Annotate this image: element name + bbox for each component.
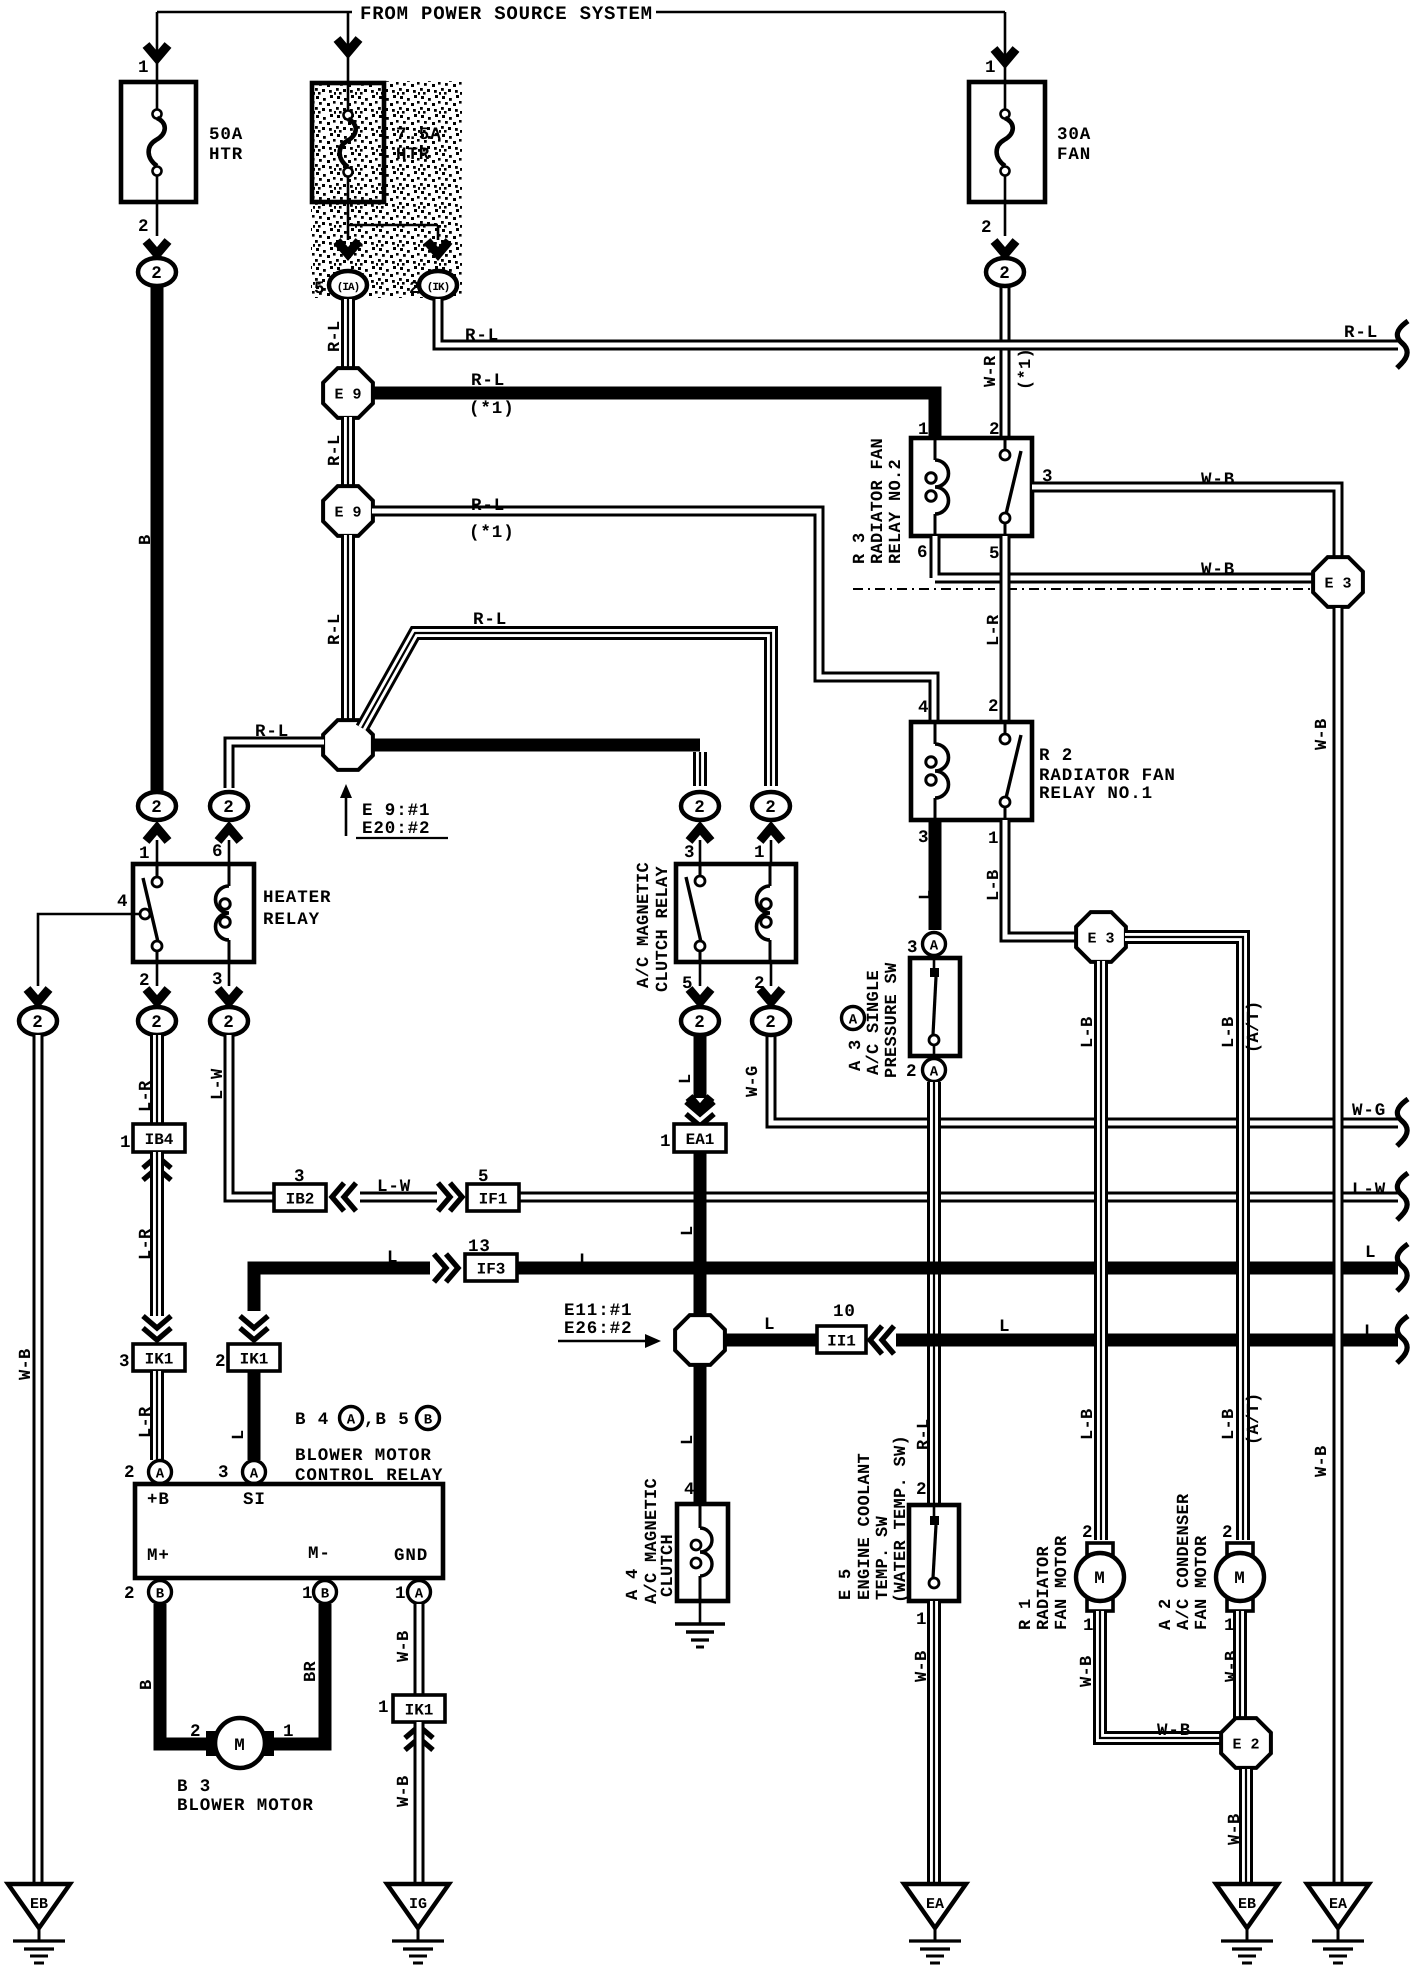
wire R-L from IK to right edge [438, 299, 1398, 345]
wire R-L junction diagonal to A/C clutch relay pin 1 [362, 633, 771, 786]
A/C clutch relay pin 5 to connector [699, 962, 702, 986]
svg-text:L-B: L-B [1220, 1016, 1239, 1048]
wire BR from M- to blower motor [270, 1604, 325, 1744]
svg-text:1: 1 [120, 1133, 131, 1153]
svg-text:R-L: R-L [255, 722, 289, 742]
svg-text:W-B: W-B [1313, 1445, 1332, 1477]
ground IG [387, 1884, 449, 1928]
svg-text:FAN MOTOR: FAN MOTOR [1193, 1535, 1212, 1630]
svg-text:W-B: W-B [395, 1775, 414, 1807]
svg-text:2: 2 [694, 798, 705, 818]
svg-text:L: L [1365, 1243, 1376, 1263]
wire L from A/C clutch relay pin 5 down to EA1 [694, 1035, 707, 1098]
svg-text:W-B: W-B [913, 1650, 932, 1682]
svg-text:E 3: E 3 [1087, 931, 1114, 948]
wire W-B radiator fan motor to E2 [1100, 1611, 1222, 1738]
svg-text:R-L: R-L [915, 1418, 934, 1450]
pin 2 of 50A fuse [156, 202, 159, 236]
wire: 7.5A fuse output branch [347, 202, 350, 225]
svg-text:L: L [917, 889, 936, 900]
svg-text:A: A [930, 939, 939, 955]
ground below A/C magnetic clutch [699, 1601, 702, 1624]
relay: A/C MAGNETIC CLUTCH RELAY [676, 864, 796, 962]
svg-text:B: B [321, 1587, 330, 1603]
fuse 7.5A HTR [312, 83, 384, 202]
svg-text:GND: GND [394, 1546, 428, 1566]
wire: feed to 7.5A HTR fuse [347, 12, 350, 83]
svg-text:W-B: W-B [1201, 560, 1235, 580]
wire L down to IK1 pin 2 [240, 1316, 268, 1328]
svg-text:IF3: IF3 [477, 1261, 506, 1279]
wire W-G horizontal run to right edge [771, 1035, 1398, 1123]
svg-text:A: A [156, 1467, 165, 1483]
svg-text:R-L: R-L [473, 610, 507, 630]
svg-text:W-B: W-B [1226, 1813, 1245, 1845]
connector E 3 upper [1313, 557, 1363, 607]
svg-text:4: 4 [918, 698, 929, 718]
svg-text:M: M [1234, 1569, 1245, 1589]
svg-text:(WATER TEMP. SW): (WATER TEMP. SW) [892, 1435, 911, 1603]
svg-text:W-G: W-G [744, 1065, 763, 1097]
svg-text:(IA): (IA) [337, 282, 359, 294]
svg-text:RELAY: RELAY [263, 910, 320, 930]
svg-text:2: 2 [765, 798, 776, 818]
svg-text:A 3: A 3 [847, 1039, 866, 1071]
wire L to IF3 [254, 1268, 430, 1311]
svg-text:2: 2 [916, 1480, 927, 1500]
connector 2 on heater relay pin 4 wire [19, 1007, 57, 1035]
net: FROM POWER SOURCE SYSTEM feed line [157, 11, 352, 14]
connector 2 below 30A fuse [986, 258, 1024, 286]
wire R-L junction to heater relay pin 6 [229, 742, 324, 788]
connector 2 above heater relay pin 6 [218, 828, 240, 841]
svg-text:1: 1 [283, 1722, 294, 1742]
svg-text:B 4: B 4 [295, 1410, 329, 1430]
relay: HEATER RELAY [133, 864, 254, 962]
wire W-B from IK1 to IG ground [414, 1722, 425, 1884]
svg-text:R-L: R-L [471, 496, 505, 516]
svg-text:2: 2 [999, 264, 1010, 284]
svg-text:R-L: R-L [326, 613, 345, 645]
svg-text:(A/T): (A/T) [1245, 1000, 1264, 1053]
svg-text:RADIATOR FAN: RADIATOR FAN [1039, 766, 1176, 786]
svg-text:IB2: IB2 [286, 1191, 315, 1209]
wire R-L (*1) bus from E9 to radiator fan relay no.2 [372, 393, 935, 440]
connector E 2 [1221, 1718, 1271, 1768]
svg-text:2: 2 [981, 218, 992, 238]
svg-text:R 1: R 1 [1017, 1598, 1036, 1630]
connector E 9 lower [323, 486, 373, 536]
svg-text:R 2: R 2 [1039, 746, 1073, 766]
svg-text:R-L: R-L [326, 434, 345, 466]
connector A of pressure switch pin 2 [923, 1059, 946, 1082]
svg-text:3: 3 [218, 1463, 229, 1483]
svg-text:3: 3 [684, 843, 695, 863]
connector E 9 upper [323, 368, 373, 418]
svg-text:5: 5 [314, 279, 325, 299]
wire R-L between E9 connectors [341, 417, 355, 487]
connector A of pressure switch pin 3 [923, 933, 946, 956]
svg-text:L: L [679, 1225, 698, 1236]
connector 2 above heater relay pin 1 [146, 828, 168, 841]
svg-text:RELAY NO.2: RELAY NO.2 [887, 459, 906, 564]
wire W-B from GND pin to IK1 [414, 1604, 425, 1695]
svg-text:1: 1 [988, 829, 999, 849]
wire L-R heater relay pin 2 to IB4 [150, 1035, 164, 1124]
wire L junction to II1 [724, 1334, 817, 1347]
svg-text:2: 2 [138, 217, 149, 237]
svg-text:1: 1 [754, 843, 765, 863]
connector 2 above A/C clutch relay pin 3 [689, 828, 711, 841]
svg-text:L: L [999, 1317, 1010, 1337]
svg-text:+B: +B [147, 1490, 170, 1510]
junction octagon E11/E26 [675, 1315, 725, 1365]
svg-text:2: 2 [124, 1463, 135, 1483]
connector 2 below 50A fuse [138, 258, 176, 286]
svg-text:A: A [250, 1467, 259, 1483]
heater relay pin 2 to connector [156, 962, 159, 986]
svg-text:5: 5 [989, 544, 1000, 564]
wire L IK1 to blower motor control relay [248, 1371, 261, 1460]
svg-text:W-B: W-B [395, 1630, 414, 1662]
svg-text:BLOWER MOTOR: BLOWER MOTOR [295, 1446, 432, 1466]
note arrow E 9:#1 E20:#2 [345, 792, 348, 836]
svg-text:A/C MAGNETIC: A/C MAGNETIC [635, 862, 654, 988]
wire: feed to 50A HTR fuse [156, 12, 159, 82]
svg-text:E 9: E 9 [334, 387, 361, 404]
svg-text:CLUTCH RELAY: CLUTCH RELAY [654, 865, 673, 992]
svg-text:(IK): (IK) [427, 282, 449, 294]
wire W-B condenser fan motor to E2 [1233, 1611, 1247, 1718]
svg-text:M+: M+ [147, 1546, 170, 1566]
svg-text:IG: IG [409, 1896, 427, 1913]
wire R-L from IA to E9 [341, 299, 355, 369]
svg-text:2: 2 [223, 1013, 234, 1033]
svg-text:W-B: W-B [1078, 1655, 1097, 1687]
svg-text:BLOWER MOTOR: BLOWER MOTOR [177, 1796, 314, 1816]
svg-text:2: 2 [151, 264, 162, 284]
svg-text:ENGINE COOLANT: ENGINE COOLANT [856, 1453, 875, 1600]
svg-text:FROM POWER SOURCE SYSTEM: FROM POWER SOURCE SYSTEM [360, 3, 653, 25]
svg-text:W-B: W-B [1201, 470, 1235, 490]
ground EB right [1216, 1884, 1278, 1928]
svg-text:4: 4 [117, 892, 128, 912]
svg-text:W-B: W-B [1157, 1721, 1191, 1741]
wire L-B (A/T) from E3 to condenser fan motor [1125, 937, 1243, 1540]
svg-text:2: 2 [151, 798, 162, 818]
svg-text:B 3: B 3 [177, 1777, 211, 1797]
svg-text:E 9:#1: E 9:#1 [362, 801, 430, 821]
svg-text:1: 1 [139, 844, 150, 864]
svg-text:M-: M- [308, 1544, 331, 1564]
svg-text:L-B: L-B [1079, 1408, 1098, 1440]
wire L-R IB4 to IK1 [150, 1152, 164, 1316]
svg-text:50A: 50A [209, 125, 243, 145]
svg-text:RELAY NO.1: RELAY NO.1 [1039, 784, 1153, 804]
svg-text:L: L [1364, 1322, 1375, 1342]
svg-text:1: 1 [660, 1132, 671, 1152]
wire L-R IK1 to blower motor control relay [150, 1371, 164, 1460]
svg-text:1: 1 [1083, 1616, 1094, 1636]
svg-text:L: L [230, 1429, 249, 1440]
svg-text:B: B [424, 1413, 433, 1429]
heater relay pin 3 to connector [228, 962, 231, 986]
svg-text:EB: EB [30, 1896, 48, 1913]
svg-text:3: 3 [119, 1352, 130, 1372]
svg-text:R-L: R-L [465, 326, 499, 346]
ground EA right [1307, 1884, 1369, 1928]
svg-text:R 3: R 3 [851, 532, 870, 564]
svg-text:(A/T): (A/T) [1245, 1392, 1264, 1445]
svg-text:L-B: L-B [1079, 1016, 1098, 1048]
svg-text:M: M [1094, 1569, 1105, 1589]
fuse 50A HTR [121, 82, 196, 202]
svg-text:R-L: R-L [326, 320, 345, 352]
svg-text:HEATER: HEATER [263, 888, 331, 908]
fuse 30A FAN [969, 82, 1045, 202]
connector E 3 lower [1076, 912, 1126, 962]
svg-text:2: 2 [1082, 1523, 1093, 1543]
svg-text:A: A [415, 1587, 424, 1603]
svg-text:L-W: L-W [1352, 1180, 1386, 1200]
svg-text:R-L: R-L [471, 371, 505, 391]
svg-text:L-R: L-R [137, 1406, 156, 1438]
svg-text:L-R: L-R [137, 1228, 156, 1260]
svg-text:1: 1 [302, 1584, 313, 1604]
svg-text:HTR: HTR [396, 145, 430, 165]
wire W-B heater relay pin 4 to EB ground [33, 1035, 44, 1884]
svg-text:A/C SINGLE: A/C SINGLE [865, 970, 884, 1075]
A/C clutch relay pin 2 to connector [770, 962, 773, 986]
svg-text:SI: SI [243, 1490, 266, 1510]
svg-text:TEMP. SW: TEMP. SW [874, 1515, 893, 1600]
svg-text:1: 1 [985, 58, 996, 78]
svg-text:RADIATOR: RADIATOR [1035, 1545, 1054, 1630]
wire R-L (*1) from E9 to radiator fan relay no.1 pin 4 [372, 511, 934, 724]
svg-text:L-R: L-R [985, 614, 1004, 646]
wire R-L thick junction to A/C clutch relay pin 3 [372, 739, 700, 752]
svg-text:L: L [579, 1251, 590, 1271]
pin 2 of 30A fuse [1004, 202, 1007, 236]
svg-text:2: 2 [1222, 1523, 1233, 1543]
svg-text:CLUTCH: CLUTCH [659, 1534, 678, 1597]
svg-text:2: 2 [906, 1062, 917, 1082]
svg-text:L-B: L-B [985, 869, 1004, 901]
wire L from II1 to right edge [896, 1334, 1398, 1347]
svg-text:HTR: HTR [209, 145, 243, 165]
svg-text:(*1): (*1) [469, 399, 515, 419]
svg-text:FAN: FAN [1057, 145, 1091, 165]
wire L-B from E3 to radiator fan motor [1094, 961, 1108, 1540]
svg-text:3: 3 [918, 828, 929, 848]
svg-text:EB: EB [1238, 1896, 1256, 1913]
svg-text:4: 4 [684, 1480, 695, 1500]
svg-text:IK1: IK1 [405, 1702, 434, 1720]
svg-text:A 2: A 2 [1157, 1598, 1176, 1630]
svg-text:3: 3 [907, 938, 918, 958]
switch A 3 A/C SINGLE PRESSURE SW [933, 956, 936, 968]
svg-text:B: B [156, 1587, 165, 1603]
svg-text:6: 6 [917, 543, 928, 563]
svg-text:IK1: IK1 [240, 1351, 269, 1369]
svg-text:E 9: E 9 [334, 505, 361, 522]
svg-text:7.5A: 7.5A [396, 125, 442, 145]
wire R-L from E9 to junction [341, 535, 355, 721]
svg-text:L-B: L-B [1220, 1408, 1239, 1440]
wire R-L from pressure switch to engine coolant temp switch [927, 1082, 941, 1503]
wire W-B from E3 to EA ground right [1333, 608, 1344, 1884]
svg-text:E 2: E 2 [1232, 1737, 1259, 1754]
svg-text:L: L [387, 1248, 398, 1268]
svg-text:A/C CONDENSER: A/C CONDENSER [1175, 1493, 1194, 1630]
svg-text:L: L [764, 1315, 775, 1335]
wire L-W horizontal run to right edge [519, 1192, 1398, 1203]
svg-text:,B 5: ,B 5 [364, 1410, 410, 1430]
wire L from EA1 to junction [694, 1152, 707, 1318]
svg-text:1: 1 [378, 1698, 389, 1718]
svg-text:L: L [679, 1434, 698, 1445]
wire W-R from 30A fuse connector (drawn before crossing wires) [1000, 286, 1011, 438]
svg-text:2: 2 [124, 1584, 135, 1604]
svg-text:EA1: EA1 [686, 1131, 715, 1149]
svg-text:L: L [677, 1073, 696, 1084]
junction octagon E9/E20 [323, 720, 373, 770]
svg-text:RADIATOR FAN: RADIATOR FAN [869, 438, 888, 564]
svg-text:L-W: L-W [209, 1068, 228, 1100]
svg-text:W-R: W-R [982, 355, 1001, 387]
svg-text:A 4: A 4 [624, 1568, 643, 1600]
svg-text:W-G: W-G [1352, 1101, 1386, 1121]
svg-text:E 3: E 3 [1324, 576, 1351, 593]
wire L from IF3 to right edge [517, 1262, 1398, 1275]
wire L-W heater relay pin 3 to IB2 [229, 1035, 274, 1197]
svg-text:2: 2 [151, 1013, 162, 1033]
wire L-W IB2 to IF1 [360, 1192, 437, 1203]
wire: feed to 30A FAN fuse [1004, 12, 1007, 82]
svg-text:1: 1 [916, 1610, 927, 1630]
connector 2 above A/C clutch relay pin 1 [760, 828, 782, 841]
svg-text:1: 1 [138, 58, 149, 78]
svg-text:A: A [930, 1065, 939, 1081]
svg-text:II1: II1 [827, 1333, 856, 1351]
svg-text:6: 6 [212, 842, 223, 862]
svg-text:E20:#2: E20:#2 [362, 819, 430, 839]
svg-text:2: 2 [988, 697, 999, 717]
svg-text:E 5: E 5 [837, 1568, 856, 1600]
svg-text:W-B: W-B [1223, 1650, 1242, 1682]
svg-text:A: A [849, 1013, 858, 1029]
svg-text:BR: BR [302, 1660, 321, 1682]
svg-text:PRESSURE SW: PRESSURE SW [883, 962, 902, 1078]
svg-text:1: 1 [395, 1584, 406, 1604]
svg-text:IB4: IB4 [145, 1131, 174, 1149]
wire W-B from E2 to EB ground [1239, 1769, 1253, 1884]
svg-text:IK1: IK1 [145, 1351, 174, 1369]
wire B from 50A fuse to heater relay [151, 286, 164, 792]
svg-text:L-W: L-W [377, 1177, 411, 1197]
svg-text:FAN MOTOR: FAN MOTOR [1053, 1535, 1072, 1630]
svg-text:2: 2 [765, 1013, 776, 1033]
svg-text:M: M [234, 1736, 245, 1756]
svg-text:2: 2 [32, 1013, 43, 1033]
svg-text:R-L: R-L [1344, 323, 1378, 343]
svg-text:30A: 30A [1057, 125, 1091, 145]
dashed variant line [853, 588, 1312, 590]
svg-text:EA: EA [926, 1896, 944, 1913]
svg-text:E11:#1: E11:#1 [564, 1301, 632, 1321]
svg-text:IF1: IF1 [479, 1191, 508, 1209]
wire B from M+ to blower motor [160, 1604, 210, 1744]
svg-text:E26:#2: E26:#2 [564, 1319, 632, 1339]
svg-text:(*1): (*1) [1017, 348, 1036, 390]
shaded option region around 7.5A HTR fuse [311, 81, 462, 298]
svg-text:B: B [138, 1679, 157, 1690]
ground EA left [904, 1884, 966, 1928]
svg-text:10: 10 [833, 1302, 856, 1322]
svg-text:(*1): (*1) [469, 523, 515, 543]
svg-text:W-B: W-B [17, 1348, 36, 1380]
svg-text:B: B [137, 534, 156, 545]
svg-text:L-R: L-R [137, 1080, 156, 1112]
svg-text:2: 2 [215, 1352, 226, 1372]
svg-text:2: 2 [190, 1722, 201, 1742]
svg-text:A: A [347, 1413, 356, 1429]
svg-text:2: 2 [694, 1013, 705, 1033]
svg-text:EA: EA [1329, 1896, 1347, 1913]
svg-text:W-B: W-B [1313, 718, 1332, 750]
wire L junction down to A/C magnetic clutch [694, 1364, 707, 1504]
svg-text:2: 2 [223, 798, 234, 818]
ground EB left [8, 1884, 70, 1928]
